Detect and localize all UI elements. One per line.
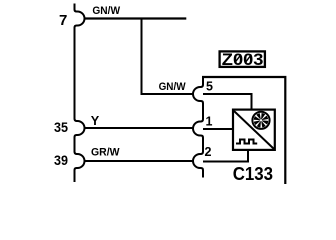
svg-text:C133: C133 bbox=[233, 163, 273, 184]
svg-text:Y: Y bbox=[91, 114, 100, 128]
slash zero 2 bbox=[245, 55, 251, 63]
svg-text:Z003: Z003 bbox=[222, 50, 264, 69]
svg-text:5: 5 bbox=[206, 80, 213, 94]
wire vertical drop bbox=[141, 18, 143, 95]
label box Z003 bbox=[220, 51, 265, 67]
icon box (pump motor) bbox=[233, 110, 275, 150]
slash zero 1 bbox=[235, 55, 241, 63]
square wave symbol bbox=[236, 140, 257, 144]
wire GR/W bbox=[85, 160, 194, 162]
fan circle bbox=[252, 112, 269, 129]
svg-text:2: 2 bbox=[205, 145, 212, 159]
svg-text:7: 7 bbox=[59, 12, 67, 29]
svg-text:39: 39 bbox=[54, 153, 68, 168]
svg-text:GN/W: GN/W bbox=[159, 81, 187, 93]
wire pin2 to icon bbox=[203, 150, 248, 162]
fan hub bbox=[260, 119, 262, 121]
wire pin5 to icon bbox=[203, 94, 252, 110]
connector J519 left edge with terminals bbox=[75, 4, 85, 183]
component Z003 box top and right edge bbox=[202, 77, 285, 184]
svg-text:GR/W: GR/W bbox=[91, 147, 120, 159]
icon diagonal bbox=[234, 111, 274, 149]
wire to pin 5 bbox=[141, 93, 194, 95]
wire GN/W top bbox=[85, 17, 187, 19]
fan spokes bbox=[254, 113, 269, 128]
svg-text:1: 1 bbox=[206, 115, 213, 129]
wire pin1 to icon bbox=[203, 128, 233, 130]
wire Y bbox=[85, 127, 194, 129]
svg-text:GN/W: GN/W bbox=[92, 5, 120, 17]
svg-text:35: 35 bbox=[54, 120, 68, 135]
component Z003 box edge (left, with terminal notches) bbox=[193, 77, 203, 178]
